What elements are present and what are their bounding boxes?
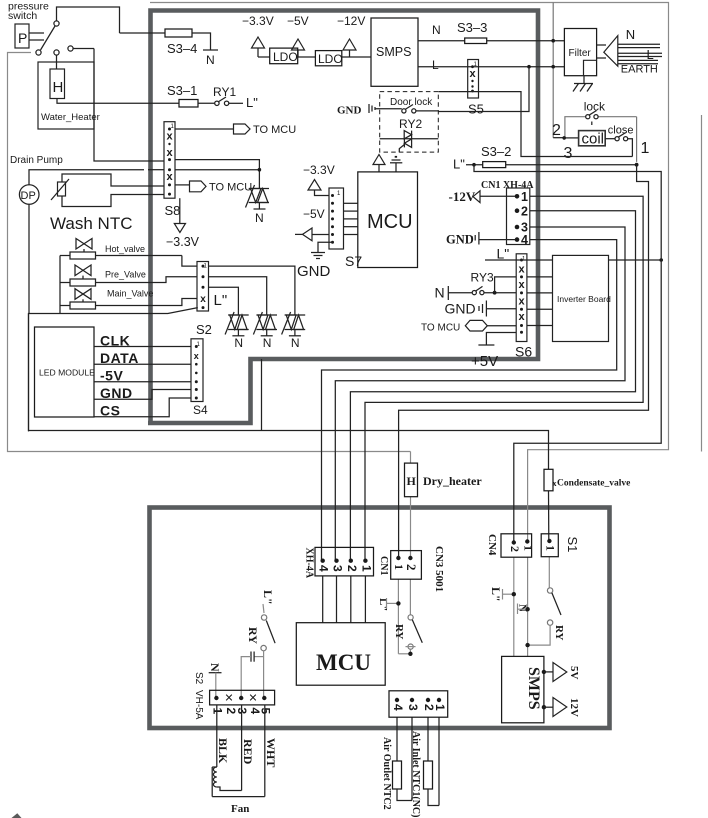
svg-text:Inverter Board: Inverter Board <box>557 294 611 304</box>
svg-text:Pre_Valve: Pre_Valve <box>105 270 146 280</box>
svg-text:1: 1 <box>359 565 373 572</box>
svg-text:x: x <box>518 264 525 276</box>
svg-text:S3–2: S3–2 <box>481 144 511 159</box>
svg-text:CN4: CN4 <box>486 534 498 556</box>
svg-text:MCU: MCU <box>316 650 371 675</box>
svg-text:5: 5 <box>259 708 273 715</box>
svg-text:GND: GND <box>446 233 474 247</box>
svg-text:CN3 5001: CN3 5001 <box>433 546 445 592</box>
svg-text:x: x <box>200 294 206 305</box>
svg-text:RED: RED <box>241 739 255 765</box>
svg-text:S3–1: S3–1 <box>167 83 197 98</box>
svg-text:x: x <box>553 479 557 488</box>
svg-text:3: 3 <box>406 704 420 711</box>
svg-text:GND: GND <box>337 105 362 117</box>
svg-text:N: N <box>291 336 300 350</box>
svg-text:−12V: −12V <box>337 14 365 28</box>
svg-text:LDO: LDO <box>318 52 343 66</box>
svg-text:S3–3: S3–3 <box>457 20 487 35</box>
svg-text:coil: coil <box>582 131 605 148</box>
svg-text:switch: switch <box>8 10 37 22</box>
svg-text:N: N <box>435 285 445 301</box>
svg-text:close: close <box>608 125 634 137</box>
svg-text:5V: 5V <box>568 666 580 680</box>
svg-text:1: 1 <box>641 140 650 157</box>
svg-text:N: N <box>626 27 635 42</box>
svg-text:Fan: Fan <box>231 803 249 815</box>
svg-text:3: 3 <box>564 145 573 162</box>
svg-text:CN1: CN1 <box>378 556 389 575</box>
svg-text:S6: S6 <box>515 344 532 360</box>
svg-text:H: H <box>53 79 64 96</box>
svg-text:LED MODULE: LED MODULE <box>39 368 95 378</box>
svg-text:N: N <box>206 53 215 67</box>
svg-text:x: x <box>518 279 525 291</box>
svg-text:S8: S8 <box>165 203 181 218</box>
svg-text:WHT: WHT <box>264 738 278 767</box>
svg-text:−3.3V: −3.3V <box>303 163 335 177</box>
svg-text:L": L" <box>453 157 465 172</box>
svg-text:x: x <box>518 296 525 308</box>
svg-text:LDO: LDO <box>273 50 298 64</box>
svg-text:✕: ✕ <box>224 693 233 705</box>
svg-text:XH-4A: XH-4A <box>304 548 315 579</box>
svg-text:N: N <box>255 211 264 225</box>
svg-text:2: 2 <box>552 122 561 139</box>
svg-text:L": L" <box>489 587 503 602</box>
svg-text:+5V: +5V <box>471 353 498 370</box>
svg-text:GND: GND <box>445 301 476 317</box>
svg-text:RY: RY <box>553 625 565 641</box>
svg-text:x: x <box>518 311 525 323</box>
svg-text:S3–4: S3–4 <box>167 41 197 56</box>
svg-text:2: 2 <box>345 565 359 572</box>
svg-text:L: L <box>647 47 654 62</box>
svg-text:L": L" <box>377 598 389 611</box>
svg-text:−5V: −5V <box>287 14 309 28</box>
svg-text:L: L <box>432 58 439 72</box>
svg-text:S2: S2 <box>193 672 204 685</box>
svg-text:2: 2 <box>508 546 522 552</box>
svg-text:EARTH: EARTH <box>621 64 658 76</box>
svg-text:BLK: BLK <box>216 738 230 764</box>
svg-text:Drain Pump: Drain Pump <box>10 155 63 166</box>
svg-text:TO MCU: TO MCU <box>253 124 296 136</box>
svg-text:1: 1 <box>522 545 536 551</box>
svg-text:1: 1 <box>544 545 558 551</box>
svg-text:L": L" <box>261 590 275 605</box>
svg-text:N: N <box>208 663 222 672</box>
svg-text:SMPS: SMPS <box>376 45 411 59</box>
svg-text:RY3: RY3 <box>471 271 494 285</box>
svg-text:2: 2 <box>521 205 528 219</box>
svg-text:DP: DP <box>21 190 36 202</box>
svg-text:RY2: RY2 <box>399 117 422 131</box>
svg-text:S1: S1 <box>565 537 580 553</box>
svg-text:x: x <box>194 351 199 361</box>
svg-text:−5V: −5V <box>303 207 325 221</box>
svg-text:Hot_valve: Hot_valve <box>105 244 145 254</box>
svg-text:-12V: -12V <box>449 189 476 204</box>
svg-text:Door lock: Door lock <box>390 97 433 108</box>
svg-text:3: 3 <box>331 565 345 572</box>
svg-text:Water_Heater: Water_Heater <box>41 112 100 123</box>
svg-text:S4: S4 <box>193 403 208 417</box>
svg-text:x: x <box>166 147 173 159</box>
svg-text:✕: ✕ <box>248 693 257 705</box>
svg-text:2: 2 <box>404 564 419 571</box>
svg-text:TO MCU: TO MCU <box>421 323 460 334</box>
svg-text:CS: CS <box>100 403 120 419</box>
svg-text:RY1: RY1 <box>213 85 236 99</box>
svg-text:RY: RY <box>246 627 260 644</box>
svg-text:x: x <box>166 131 173 143</box>
svg-text:TO MCU: TO MCU <box>209 182 252 194</box>
svg-text:Air Inlet NTC1(NC): Air Inlet NTC1(NC) <box>410 731 421 817</box>
svg-text:L": L" <box>214 292 228 309</box>
svg-text:Wash NTC: Wash NTC <box>50 214 133 233</box>
svg-text:1: 1 <box>392 564 406 570</box>
svg-text:x: x <box>166 171 173 183</box>
svg-text:S5: S5 <box>468 102 484 117</box>
svg-text:N: N <box>234 336 243 350</box>
svg-text:Filter: Filter <box>569 48 592 59</box>
svg-text:P: P <box>18 30 27 46</box>
svg-text:1: 1 <box>433 704 447 711</box>
svg-text:N: N <box>263 336 272 350</box>
svg-text:SMPS: SMPS <box>525 667 542 710</box>
svg-text:−3.3V: −3.3V <box>166 235 200 249</box>
svg-text:1: 1 <box>211 708 225 715</box>
svg-text:1: 1 <box>521 190 528 204</box>
svg-text:Air Outlet NTC2: Air Outlet NTC2 <box>381 737 392 810</box>
svg-text:L": L" <box>246 95 258 110</box>
svg-text:MCU: MCU <box>367 211 413 233</box>
svg-text:x: x <box>469 68 476 80</box>
svg-text:VH-5A: VH-5A <box>193 690 204 720</box>
svg-text:L": L" <box>497 246 510 262</box>
svg-text:Dry_heater: Dry_heater <box>423 474 482 488</box>
svg-text:GND: GND <box>297 263 331 280</box>
svg-text:N: N <box>432 23 441 37</box>
svg-text:−3.3V: −3.3V <box>242 14 274 28</box>
svg-text:Main_Valve: Main_Valve <box>107 289 153 299</box>
svg-text:S2: S2 <box>196 322 212 337</box>
svg-text:H: H <box>407 474 417 488</box>
svg-text:4: 4 <box>391 704 405 711</box>
svg-text:RY: RY <box>393 624 405 640</box>
svg-text:S7: S7 <box>345 253 362 269</box>
svg-text:4: 4 <box>521 233 528 247</box>
svg-text:Condensate_valve: Condensate_valve <box>557 479 630 489</box>
svg-text:12V: 12V <box>568 698 580 717</box>
svg-text:4: 4 <box>317 565 331 572</box>
